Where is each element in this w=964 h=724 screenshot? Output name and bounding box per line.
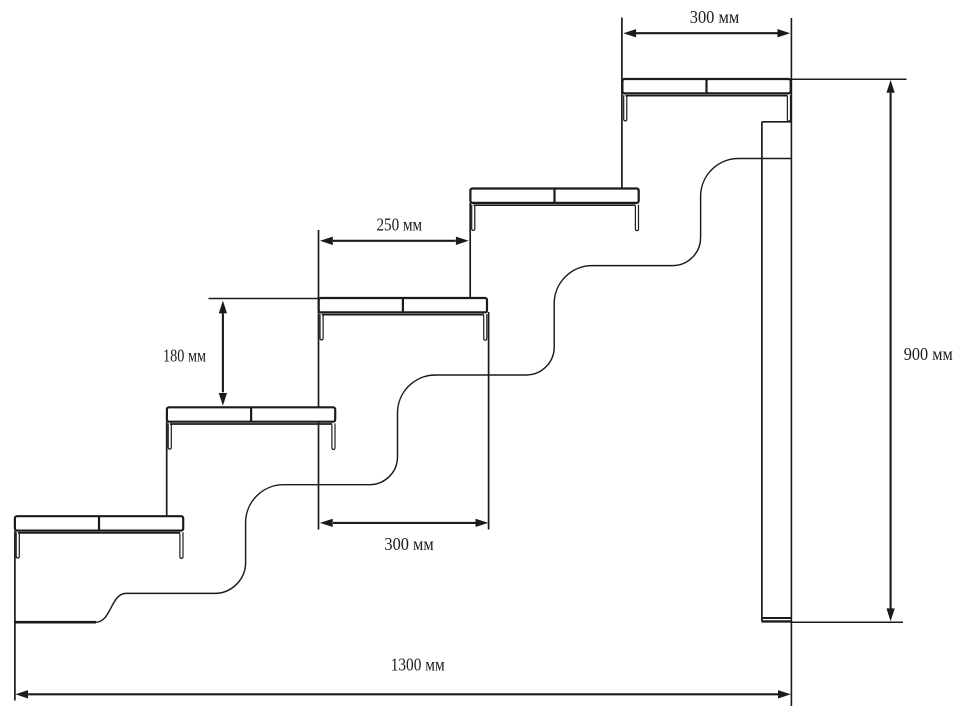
svg-text:250 мм: 250 мм xyxy=(376,214,422,234)
svg-text:900 мм: 900 мм xyxy=(904,344,953,364)
svg-text:1300 мм: 1300 мм xyxy=(391,655,445,675)
svg-text:300 мм: 300 мм xyxy=(690,7,740,27)
svg-text:180 мм: 180 мм xyxy=(163,345,206,365)
svg-text:300 мм: 300 мм xyxy=(384,534,433,554)
